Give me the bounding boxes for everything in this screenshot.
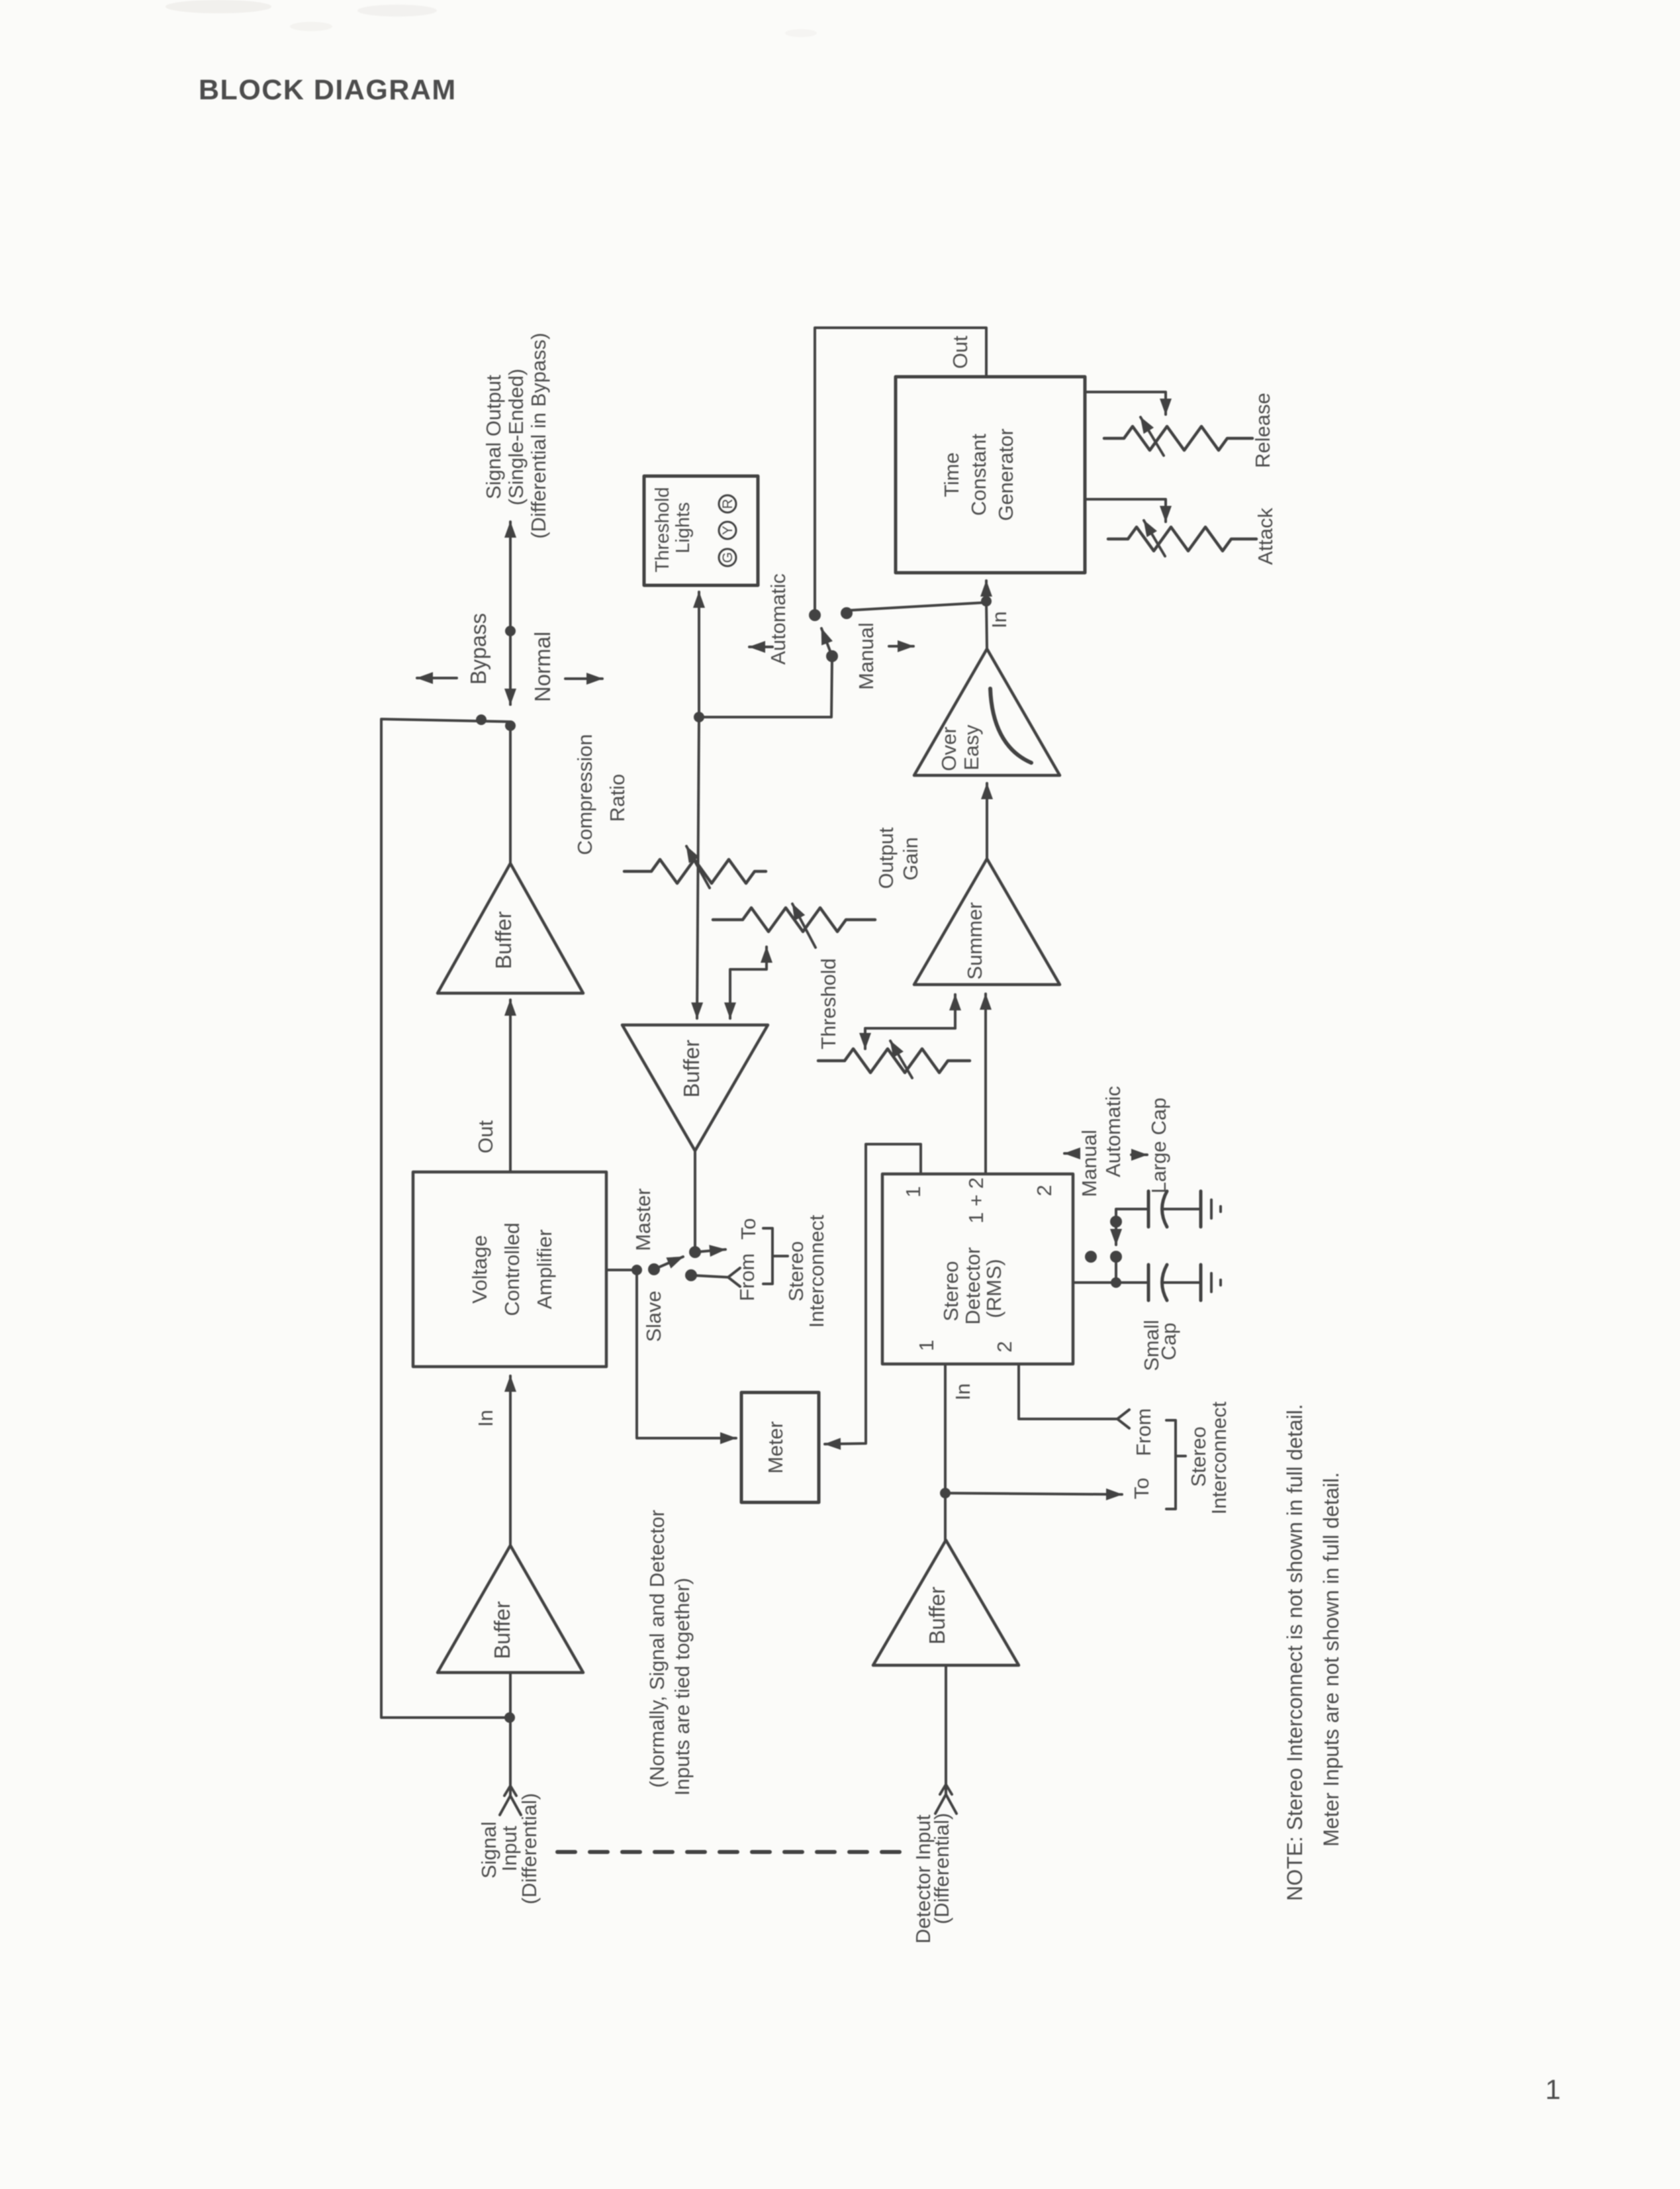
svg-text:In: In	[474, 1410, 497, 1427]
svg-text:Voltage: Voltage	[468, 1235, 491, 1303]
svg-text:Threshold: Threshold	[817, 958, 840, 1049]
block threshold lights	[644, 476, 758, 585]
svg-text:2: 2	[1033, 1185, 1056, 1196]
wire detector to cap switch	[1073, 1281, 1116, 1284]
svg-text:Stereo: Stereo	[939, 1261, 962, 1321]
svg-text:Easy: Easy	[960, 724, 983, 770]
ground small cap	[1199, 1265, 1203, 1300]
resistor compression ratio pot	[624, 859, 766, 883]
svg-text:Manual: Manual	[855, 622, 878, 690]
block stereo detector (RMS)	[882, 1174, 1073, 1364]
node cap junction	[1111, 1277, 1121, 1288]
svg-text:Interconnect: Interconnect	[805, 1214, 828, 1328]
svg-text:Large Cap: Large Cap	[1147, 1098, 1170, 1194]
svg-text:Signal: Signal	[477, 1822, 500, 1878]
arrow automatic cap position	[1131, 1153, 1147, 1156]
node from stereo interconnect contact	[685, 1269, 697, 1281]
wire VCA control input	[606, 1269, 637, 1271]
node signal input junction	[504, 1712, 515, 1723]
wire threshold pot to summer	[954, 995, 957, 1028]
svg-text:R: R	[720, 499, 735, 509]
ground large cap	[1199, 1191, 1203, 1227]
wire threshold feed corner	[865, 1028, 955, 1049]
node detector input junction	[940, 1488, 951, 1498]
svg-text:Buffer: Buffer	[490, 1601, 514, 1659]
svg-text:Meter Inputs are not shown in: Meter Inputs are not shown in full detai…	[1319, 1472, 1343, 1847]
svg-text:Output: Output	[874, 827, 898, 889]
lamp R	[719, 495, 736, 512]
arrow automatic position	[749, 646, 772, 648]
svg-text:Buffer: Buffer	[491, 911, 516, 969]
wire detector 1 output to meter	[825, 1144, 921, 1444]
svg-text:To: To	[1130, 1478, 1153, 1500]
svg-text:Over: Over	[937, 726, 960, 771]
scan smudge artifacts	[165, 0, 271, 13]
wire buffer B to VCA in	[509, 1376, 512, 1545]
svg-text:Controlled: Controlled	[500, 1222, 524, 1316]
svg-text:Out: Out	[474, 1120, 497, 1153]
svg-text:Summer: Summer	[963, 902, 986, 979]
svg-text:Buffer: Buffer	[679, 1040, 704, 1097]
svg-text:1: 1	[902, 1186, 925, 1197]
wire junction to mode switch pivot	[699, 659, 832, 717]
node manual cap contact	[1085, 1251, 1097, 1263]
wire output gain tap to buffer C	[730, 948, 767, 1018]
op-amp buffer A (output buffer)	[438, 863, 583, 993]
svg-text:Constant: Constant	[967, 434, 990, 516]
wire dashed input tie line	[557, 1850, 901, 1854]
svg-text:Stereo: Stereo	[1187, 1426, 1210, 1486]
wire to threshold lights	[698, 592, 700, 717]
svg-text:NOTE: Stereo Interconnect is n: NOTE: Stereo Interconnect is not shown i…	[1283, 1404, 1307, 1901]
wire detector in	[944, 1364, 947, 1540]
svg-text:In: In	[988, 611, 1011, 628]
node master/slave pivot	[648, 1263, 660, 1275]
svg-text:(Differential): (Differential)	[930, 1813, 953, 1924]
bracket stereo interconnect (detector)	[1166, 1420, 1176, 1509]
wire TCG to attack pot	[1085, 499, 1166, 522]
node buffer A output junction	[505, 720, 516, 731]
bracket stereo interconnect (control)	[763, 1228, 772, 1284]
arrow normal throw	[565, 677, 602, 680]
op-amp buffer D (detector input buffer)	[873, 1540, 1019, 1665]
svg-text:1: 1	[915, 1339, 938, 1351]
svg-text:Buffer: Buffer	[925, 1586, 949, 1644]
capacitor small cap	[1116, 1281, 1147, 1284]
svg-text:Stereo: Stereo	[784, 1241, 808, 1301]
svg-text:Out: Out	[949, 336, 972, 369]
svg-text:(Single-Ended): (Single-Ended)	[504, 369, 528, 506]
wire compression ratio line to buffer C	[697, 717, 699, 1018]
svg-text:Time: Time	[940, 452, 963, 497]
switch cap select	[1115, 1259, 1117, 1283]
svg-text:Bypass: Bypass	[466, 613, 490, 685]
wire slave to meter	[637, 1270, 736, 1438]
wire signal input	[509, 1673, 512, 1797]
svg-text:Ratio: Ratio	[606, 774, 629, 822]
svg-text:Inputs are tied together): Inputs are tied together)	[671, 1578, 694, 1796]
svg-text:Threshold: Threshold	[652, 487, 673, 573]
op-amp buffer B (signal input buffer)	[438, 1545, 583, 1673]
svg-text:1: 1	[1545, 2074, 1560, 2105]
svg-text:BLOCK DIAGRAM: BLOCK DIAGRAM	[199, 74, 457, 106]
svg-text:Automatic: Automatic	[767, 573, 790, 665]
resistor threshold pot	[818, 1049, 970, 1073]
terminal detector input fork	[935, 1794, 957, 1814]
curve over easy knee	[990, 689, 1031, 763]
svg-text:Attack: Attack	[1254, 507, 1277, 565]
svg-text:Master: Master	[631, 1189, 655, 1251]
wire VCA out to buffer A	[509, 1000, 512, 1172]
svg-text:Signal Output: Signal Output	[482, 375, 505, 499]
svg-text:Generator: Generator	[994, 428, 1017, 521]
block U1 Voltage Controlled Amplifier	[413, 1172, 606, 1367]
wire from stereo interconnect (control)	[691, 1275, 728, 1277]
wire buffer A output to junction	[509, 726, 512, 865]
node bypass tap	[505, 626, 516, 636]
svg-text:Amplifier: Amplifier	[533, 1230, 556, 1310]
svg-text:Normal: Normal	[530, 632, 555, 702]
switch lever master/slave	[654, 1257, 683, 1269]
wire bypass-normal down arrow	[509, 631, 512, 705]
node master contact	[689, 1246, 701, 1258]
arrow to stereo interconnect (control)	[695, 1249, 725, 1252]
node automatic contact	[809, 609, 821, 621]
svg-text:Meter: Meter	[764, 1421, 787, 1473]
svg-text:Lights: Lights	[673, 502, 694, 553]
svg-text:From: From	[735, 1253, 759, 1301]
svg-text:Release: Release	[1251, 393, 1274, 468]
node compression ratio junction	[694, 712, 704, 722]
wire over easy to TCG junction	[986, 601, 987, 649]
node TCG in junction	[981, 596, 992, 607]
capacitor large cap	[1116, 1209, 1147, 1222]
op-amp over easy	[914, 649, 1060, 775]
svg-text:G: G	[720, 552, 735, 563]
svg-text:Cap: Cap	[1157, 1323, 1180, 1361]
op-amp summer	[914, 859, 1060, 985]
resistor release pot	[1104, 426, 1252, 450]
svg-text:1 + 2: 1 + 2	[964, 1177, 988, 1224]
wire TCG out feedback loop	[815, 328, 986, 612]
wire manual contact to TCG in	[847, 603, 985, 610]
svg-text:Slave: Slave	[642, 1290, 665, 1342]
op-amp buffer C (control buffer)	[622, 1025, 768, 1151]
resistor output gain pot	[713, 908, 875, 932]
arrow manual cap position	[1064, 1152, 1079, 1155]
terminal signal input fork	[500, 1796, 521, 1815]
arrow bypass throw	[417, 677, 457, 679]
svg-text:(Differential): (Differential)	[518, 1793, 541, 1904]
wire signal output arrow	[509, 522, 512, 705]
svg-text:Gain: Gain	[899, 837, 922, 880]
svg-text:Automatic: Automatic	[1101, 1086, 1125, 1177]
node mode switch pivot	[826, 650, 838, 662]
svg-text:From: From	[1132, 1408, 1155, 1456]
svg-text:(RMS): (RMS)	[982, 1259, 1005, 1318]
switch lever automatic/manual	[821, 628, 832, 656]
arrow into TCG in	[985, 581, 988, 601]
svg-text:In: In	[951, 1383, 974, 1400]
svg-text:2: 2	[993, 1341, 1016, 1352]
svg-text:(Normally, Signal and Detector: (Normally, Signal and Detector	[645, 1510, 669, 1788]
svg-text:(Differential in Bypass): (Differential in Bypass)	[527, 332, 550, 538]
resistor attack pot	[1108, 527, 1256, 551]
wire bypass feedback loop	[381, 719, 509, 1718]
wire TCG to release pot	[1085, 392, 1166, 414]
wire detector 2 to stereo interconnect	[1019, 1364, 1117, 1419]
block meter	[741, 1392, 819, 1502]
node manual contact	[841, 607, 853, 619]
svg-text:Manual: Manual	[1078, 1130, 1101, 1197]
block time constant generator	[896, 377, 1085, 573]
svg-text:Y: Y	[720, 526, 735, 535]
svg-text:Interconnect: Interconnect	[1207, 1401, 1231, 1514]
lamp Y	[719, 522, 736, 539]
arrow manual position	[889, 645, 913, 648]
lamp G	[719, 549, 736, 566]
node bypass feedback tap	[476, 714, 487, 725]
arrow summer to over easy	[986, 783, 988, 859]
svg-text:To: To	[737, 1218, 760, 1240]
node control junction	[631, 1265, 642, 1275]
wire buffer C to master contact	[694, 1151, 696, 1253]
arrow to stereo interconnect (detector)	[945, 1493, 1122, 1494]
wire detector input	[945, 1665, 947, 1796]
svg-text:Compression: Compression	[573, 734, 596, 855]
svg-text:Detector: Detector	[961, 1247, 984, 1324]
wire detector 1 to summer	[984, 994, 987, 1173]
